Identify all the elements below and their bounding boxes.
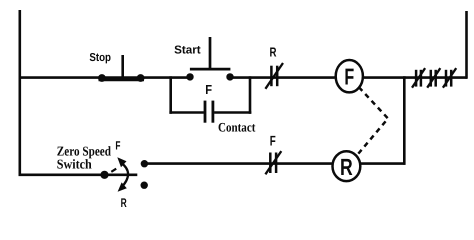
svg-text:F: F bbox=[270, 132, 276, 148]
svg-text:F: F bbox=[205, 82, 212, 97]
contact F seal-in (NO) bbox=[205, 82, 213, 123]
wire junction vertical (coils common) bbox=[403, 76, 406, 165]
overload contact OL2 (NC) bbox=[427, 68, 440, 88]
svg-text:F: F bbox=[344, 64, 354, 90]
svg-text:F: F bbox=[115, 138, 120, 152]
svg-text:Contact: Contact bbox=[218, 120, 256, 135]
svg-text:Start: Start bbox=[174, 44, 201, 56]
coil F bbox=[336, 60, 363, 92]
wire bottom rung right segment bbox=[361, 162, 406, 165]
wire right rail L2 bbox=[465, 11, 468, 79]
wire top rung middle segment bbox=[230, 76, 335, 79]
svg-text:Stop: Stop bbox=[89, 52, 111, 64]
wire top rung right segment bbox=[364, 76, 467, 79]
wire bottom rung left segment (to zero speed switch) bbox=[19, 174, 138, 177]
wire bottom rung middle segment bbox=[144, 162, 331, 165]
pushbutton Stop (NC) bbox=[89, 52, 144, 82]
coil R bbox=[333, 151, 361, 181]
svg-text:R: R bbox=[121, 196, 127, 207]
svg-text:R: R bbox=[340, 154, 353, 180]
wire top rung left segment bbox=[19, 76, 191, 79]
wire left rail L1 bbox=[18, 10, 21, 176]
pushbutton Start (NO) bbox=[174, 37, 234, 81]
label Zero Speed Switch bbox=[57, 144, 112, 172]
contact R (NC) top rung bbox=[265, 44, 283, 88]
svg-text:Switch: Switch bbox=[57, 157, 92, 172]
zero speed switch (selector: common dot, arm tick, arc arrows, F/R contacts) bbox=[100, 138, 148, 210]
overload contact OL3 (NC) bbox=[443, 68, 456, 88]
wire seal-in branch (left vertical, bottom, right vertical) bbox=[169, 76, 251, 114]
svg-text:R: R bbox=[270, 44, 277, 59]
overload contact OL1 (NC) bbox=[412, 68, 425, 88]
contact F (NC) bottom rung bbox=[265, 132, 281, 174]
mechanical interlock dashed link F-R bbox=[357, 87, 388, 155]
